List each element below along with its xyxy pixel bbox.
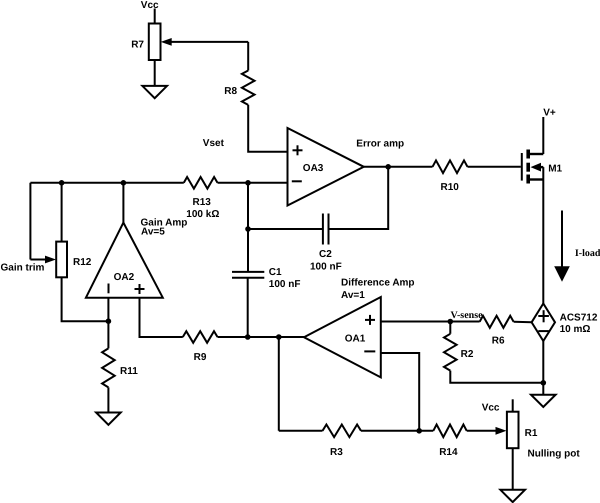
wire R3 to R14 bbox=[361, 430, 433, 432]
label R13 bbox=[193, 197, 212, 208]
wire R1 top bbox=[512, 399, 514, 411]
OA3 + marker bbox=[293, 145, 303, 155]
wire bottom rail left bbox=[279, 430, 323, 432]
svg-text:V-sense: V-sense bbox=[451, 310, 484, 321]
svg-text:R9: R9 bbox=[194, 352, 207, 363]
op-amp OA1 bbox=[304, 297, 381, 377]
svg-text:Vcc: Vcc bbox=[141, 0, 159, 11]
label Gain Amp bbox=[141, 217, 188, 228]
label Nulling pot bbox=[528, 449, 581, 460]
node junction R3/R14 bbox=[416, 428, 422, 434]
svg-text:Av=5: Av=5 bbox=[141, 227, 165, 238]
svg-text:Vcc: Vcc bbox=[482, 402, 500, 413]
wire R11 top bbox=[107, 321, 109, 348]
wire OA2 +in bbox=[140, 298, 183, 337]
node Vcc (bottom) bbox=[482, 402, 500, 413]
svg-text:Difference Amp: Difference Amp bbox=[341, 278, 415, 289]
svg-text:Nulling pot: Nulling pot bbox=[528, 449, 581, 460]
svg-text:OA1: OA1 bbox=[345, 334, 366, 345]
wire gain-amp output rail bbox=[30, 182, 183, 184]
OA2 + marker bbox=[135, 284, 145, 294]
svg-text:Vset: Vset bbox=[203, 138, 225, 149]
wire R11 to ground bbox=[107, 387, 109, 412]
svg-text:R1: R1 bbox=[525, 428, 538, 439]
node junction R12/rail bbox=[59, 180, 65, 186]
node junction OA3out/C2 bbox=[385, 164, 391, 170]
node V+ bbox=[543, 108, 556, 119]
transistor M1 channel bbox=[526, 150, 530, 184]
label R9 bbox=[194, 352, 207, 363]
label C2 value bbox=[310, 262, 342, 273]
svg-text:C2: C2 bbox=[319, 249, 332, 260]
OA3 - marker bbox=[292, 180, 302, 182]
svg-text:R10: R10 bbox=[441, 182, 460, 193]
svg-text:Av=1: Av=1 bbox=[341, 290, 365, 301]
wire OA1out to R3 bbox=[278, 337, 280, 431]
resistor R9 bbox=[183, 331, 218, 343]
label OA1 bbox=[345, 334, 366, 345]
svg-text:100 nF: 100 nF bbox=[269, 279, 301, 290]
label R6 bbox=[492, 336, 505, 347]
node junction R13/OA3- bbox=[245, 180, 251, 186]
svg-text:100 nF: 100 nF bbox=[310, 262, 342, 273]
label M1 bbox=[548, 163, 562, 174]
OA1 - marker bbox=[364, 350, 375, 352]
node junction C1/R9 bbox=[245, 334, 251, 340]
label C1 bbox=[269, 267, 282, 278]
ground (below ACS712) bbox=[531, 395, 556, 407]
wire OA3 -in bbox=[218, 182, 288, 184]
svg-text:I-load: I-load bbox=[575, 248, 600, 259]
wire M1 source down bbox=[542, 167, 544, 303]
svg-text:R12: R12 bbox=[73, 257, 92, 268]
wire Vcc to R7 bbox=[154, 9, 156, 24]
wire C2 left bbox=[248, 228, 323, 230]
label ACS712 bbox=[560, 312, 598, 323]
resistor R14 bbox=[433, 425, 466, 438]
resistor R2 bbox=[444, 334, 457, 371]
ground (below R11) bbox=[96, 413, 121, 425]
wire R2 top bbox=[449, 322, 451, 334]
wire C2 right bbox=[329, 167, 388, 229]
label R13 value bbox=[186, 209, 219, 220]
svg-text:OA2: OA2 bbox=[114, 272, 135, 283]
wire R14 to R1 wiper bbox=[467, 427, 507, 435]
transistor M1 gate bar bbox=[521, 153, 523, 181]
label R1 bbox=[525, 428, 538, 439]
wire I-load arrow bbox=[554, 211, 570, 282]
label C1 value bbox=[269, 279, 301, 290]
svg-text:R11: R11 bbox=[120, 366, 138, 377]
node junction C2 tap bbox=[245, 226, 251, 232]
wire C1 bottom bbox=[247, 278, 249, 337]
node junction OA2-/R11 bbox=[106, 318, 112, 324]
svg-text:R13: R13 bbox=[193, 197, 212, 208]
wire rail to gain trim bbox=[29, 183, 31, 260]
OA2 - marker bbox=[108, 284, 110, 294]
wire R7 to ground bbox=[154, 60, 156, 86]
label R12 bbox=[73, 257, 92, 268]
wire OA3 output bbox=[364, 166, 433, 168]
svg-text:V+: V+ bbox=[543, 108, 556, 119]
wire R12 bottom bbox=[62, 277, 109, 321]
resistor R11 bbox=[102, 348, 115, 387]
wire wiper to R8 bbox=[247, 42, 249, 71]
wire R12 top bbox=[61, 183, 63, 242]
wire OA1 +in bbox=[381, 321, 480, 323]
op-amp OA3 bbox=[288, 128, 364, 206]
svg-text:R7: R7 bbox=[131, 40, 144, 51]
wire OA1 -in bbox=[381, 353, 419, 431]
svg-text:M1: M1 bbox=[548, 163, 562, 174]
wire R1 to ground bbox=[512, 448, 514, 490]
node junction OA1out/R3 bbox=[276, 334, 282, 340]
label I-load bbox=[575, 248, 600, 259]
node junction Vsense/R2 bbox=[448, 319, 454, 325]
node V-sense bbox=[451, 310, 484, 321]
label Av=5 bbox=[141, 227, 165, 238]
label R14 bbox=[439, 447, 458, 458]
transistor M1 source stub bbox=[530, 178, 543, 180]
potentiometer R1 bbox=[507, 412, 519, 449]
svg-text:R6: R6 bbox=[492, 336, 505, 347]
label OA2 bbox=[114, 272, 135, 283]
label R2 bbox=[461, 349, 474, 360]
capacitor C2 bbox=[323, 214, 329, 245]
wire R6 to ACS712 bbox=[514, 321, 532, 324]
resistor R6 bbox=[480, 316, 514, 328]
label Error amp bbox=[356, 139, 404, 150]
svg-text:R3: R3 bbox=[330, 447, 343, 458]
label Difference Amp bbox=[341, 278, 415, 289]
resistor R13 bbox=[184, 177, 218, 189]
label R10 bbox=[441, 182, 460, 193]
svg-text:OA3: OA3 bbox=[303, 163, 324, 174]
wire gain trim wiper bbox=[30, 256, 56, 264]
svg-text:R2: R2 bbox=[461, 349, 474, 360]
label OA3 bbox=[303, 163, 324, 174]
label Gain trim bbox=[1, 262, 45, 273]
label R3 bbox=[330, 447, 343, 458]
ground (below R1) bbox=[500, 490, 525, 502]
wire OA2 -in bbox=[107, 298, 109, 322]
op-amp OA2 bbox=[86, 223, 163, 298]
capacitor C1 bbox=[232, 272, 264, 278]
svg-text:10 mΩ: 10 mΩ bbox=[560, 324, 591, 335]
node Vcc (top) bbox=[141, 0, 159, 11]
node Vset bbox=[203, 138, 225, 149]
label R8 bbox=[224, 86, 237, 97]
potentiometer R12 bbox=[56, 242, 67, 278]
svg-text:Error amp: Error amp bbox=[356, 139, 404, 150]
potentiometer R7 bbox=[149, 24, 161, 61]
resistor R10 bbox=[433, 160, 468, 173]
label Av=1 bbox=[341, 290, 365, 301]
svg-text:ACS712: ACS712 bbox=[560, 312, 598, 323]
svg-text:C1: C1 bbox=[269, 267, 282, 278]
svg-text:R14: R14 bbox=[439, 447, 458, 458]
wire R2 bottom bbox=[450, 371, 543, 383]
current sensor ACS712 bbox=[532, 304, 555, 342]
resistor R8 bbox=[242, 71, 255, 105]
wire V+ to M1 drain bbox=[542, 117, 544, 154]
wire R9 to OA1 output bbox=[218, 336, 305, 338]
svg-text:100 kΩ: 100 kΩ bbox=[186, 209, 219, 220]
wire ACS712 to ground node bbox=[542, 341, 544, 395]
label R11 bbox=[120, 366, 138, 377]
ground (below R7) bbox=[142, 86, 167, 98]
node junction ACS712/R2 bbox=[541, 380, 547, 386]
label ACS712 value bbox=[560, 324, 591, 335]
svg-text:Gain trim: Gain trim bbox=[1, 262, 45, 273]
wire OA2 output bbox=[122, 183, 124, 223]
wire R8 to OA3 +in bbox=[248, 105, 287, 152]
wire R7 wiper bbox=[161, 38, 249, 46]
node junction OA2out/rail bbox=[121, 180, 127, 186]
label C2 bbox=[319, 249, 332, 260]
wire R10 to M1 gate bbox=[468, 166, 521, 168]
svg-text:R8: R8 bbox=[224, 86, 237, 97]
label R7 bbox=[131, 40, 144, 51]
transistor M1 body arrow bbox=[531, 163, 544, 172]
wire OA3- to C1 bbox=[247, 183, 249, 272]
OA1 + marker bbox=[365, 315, 375, 325]
resistor R3 bbox=[323, 425, 362, 438]
transistor M1 drain stub bbox=[530, 153, 543, 155]
